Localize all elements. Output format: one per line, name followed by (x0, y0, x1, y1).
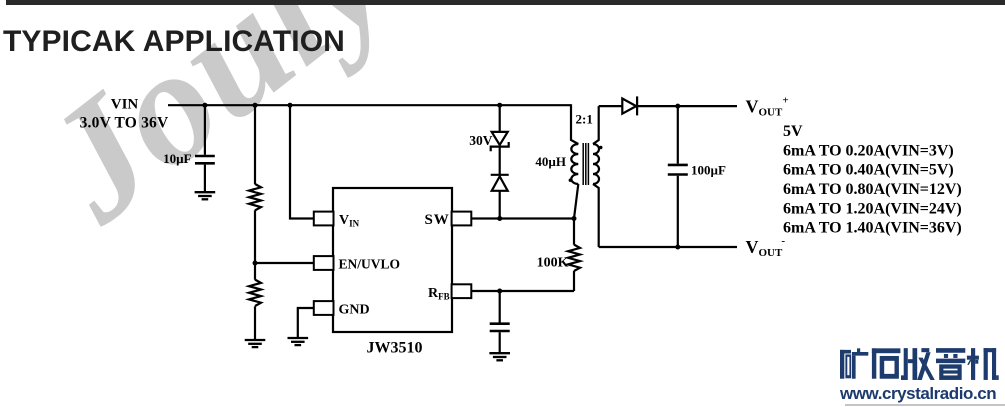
ground under GND pin (288, 338, 309, 345)
wire: SW output (471, 217, 575, 219)
wire: RFB (471, 290, 575, 292)
ground under divider (245, 340, 266, 347)
wire: 100K upper stem (574, 184, 578, 245)
wire: divider lower segment to ground (254, 306, 256, 340)
node: VOUT-/100uF junction (675, 245, 680, 250)
wire: 100K lower stem (573, 271, 575, 291)
wire: rail secondary to diode (599, 105, 623, 107)
transformer primary phase dot (569, 179, 572, 182)
ground under C1 (195, 192, 216, 199)
wire: rail corner down to transformer primary (571, 104, 578, 144)
pin EN/UVLO box (314, 256, 334, 270)
node: rail/VIN-pin junction (288, 103, 293, 108)
transformer T1 core (583, 143, 588, 185)
wire: divider middle segment (254, 210, 256, 279)
pin RFB box (452, 284, 472, 298)
node: divider/EN junction (253, 261, 258, 266)
wire: EN/UVLO to divider (255, 262, 315, 264)
node: rail/divider junction (253, 103, 258, 108)
ground under RFB cap (489, 353, 510, 360)
node: rail/clamp junction (497, 103, 502, 108)
wire: 100uF stem lower (677, 176, 679, 247)
zener diode D1 30V (492, 132, 508, 145)
wire: VIN input rail (168, 104, 571, 106)
diode D3 output rectifier (622, 99, 636, 114)
capacitor C3 100uF plates (668, 165, 688, 175)
pin VIN box (314, 212, 334, 226)
pin GND box (314, 301, 334, 315)
resistor R2 lower divider (249, 280, 261, 306)
wire: GND pin to ground (298, 308, 315, 338)
wire: 10uF branch stem (204, 105, 206, 155)
capacitor C1 10uF plates (195, 156, 215, 163)
resistor R3 100K (568, 245, 580, 271)
wire: 100uF stem upper (677, 106, 679, 164)
wire: clamp branch top stem (499, 105, 501, 132)
wire: clamp middle stem (499, 147, 501, 175)
capacitor C2 RFB plates (490, 324, 510, 331)
pin SW box (452, 212, 472, 226)
node: SW/clamp junction (497, 216, 502, 221)
wire: VOUT- rail (599, 246, 737, 248)
wire: secondary bottom lead (593, 184, 599, 247)
wire: RFB cap stem lower (499, 332, 501, 353)
IC U1 JW3510 body (333, 188, 452, 332)
transformer T1 secondary winding (593, 144, 599, 184)
wire: VIN pin drop (290, 105, 315, 218)
transformer T1 primary winding (571, 144, 578, 184)
wire: clamp bottom stem (499, 191, 501, 219)
node: VOUT+/100uF junction (675, 104, 680, 109)
wire: RFB cap stem upper (499, 291, 501, 323)
node: RFB/cap junction (497, 289, 502, 294)
transformer secondary phase dot (599, 146, 602, 149)
node: SW/primary junction (572, 216, 577, 221)
resistor R1 upper divider (249, 184, 261, 210)
wire: divider branch upper stem (254, 105, 256, 184)
node: rail/C1 junction (202, 103, 207, 108)
wire: secondary top lead (593, 106, 599, 144)
diode D2 (491, 174, 509, 176)
wire: VOUT+ rail (637, 105, 737, 107)
